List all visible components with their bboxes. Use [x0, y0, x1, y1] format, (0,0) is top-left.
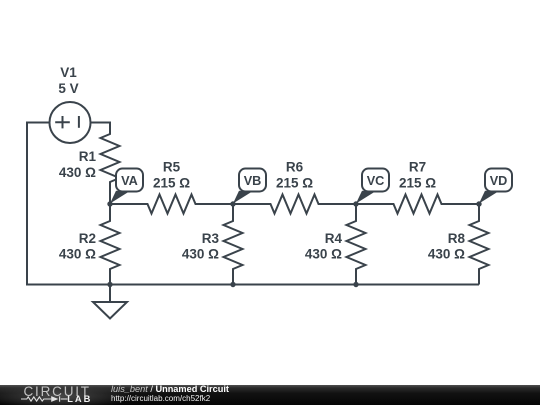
svg-text:430 Ω: 430 Ω [428, 247, 465, 262]
svg-text:http://circuitlab.com/ch52fk2: http://circuitlab.com/ch52fk2 [111, 394, 211, 403]
svg-text:R2: R2 [79, 231, 96, 246]
svg-text:R3: R3 [202, 231, 220, 246]
svg-text:215 Ω: 215 Ω [276, 176, 313, 191]
svg-text:215 Ω: 215 Ω [399, 176, 436, 191]
svg-text:430 Ω: 430 Ω [59, 165, 96, 180]
svg-text:LAB: LAB [67, 394, 92, 404]
svg-text:430 Ω: 430 Ω [305, 247, 342, 262]
svg-text:430 Ω: 430 Ω [59, 247, 96, 262]
svg-text:VC: VC [367, 174, 385, 188]
svg-text:VD: VD [490, 174, 508, 188]
svg-text:215 Ω: 215 Ω [153, 176, 190, 191]
svg-text:R7: R7 [409, 160, 426, 175]
svg-text:R1: R1 [79, 149, 97, 164]
svg-text:R5: R5 [163, 160, 181, 175]
svg-text:luis_bent / Unnamed Circuit: luis_bent / Unnamed Circuit [111, 384, 229, 394]
svg-text:R6: R6 [286, 160, 304, 175]
svg-text:430 Ω: 430 Ω [182, 247, 219, 262]
svg-text:R8: R8 [448, 231, 466, 246]
svg-text:VA: VA [121, 174, 138, 188]
svg-text:5 V: 5 V [58, 81, 78, 96]
svg-text:R4: R4 [325, 231, 343, 246]
svg-text:V1: V1 [60, 65, 77, 80]
svg-text:VB: VB [244, 174, 262, 188]
